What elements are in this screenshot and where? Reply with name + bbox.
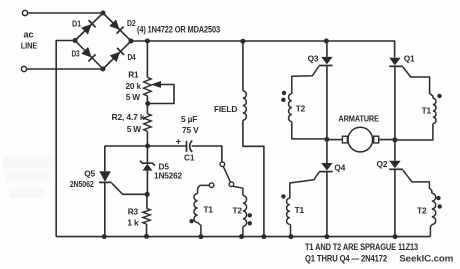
SCR Q3: [321, 57, 332, 65]
svg-text:FIELD: FIELD: [214, 104, 237, 114]
T1 secondary lower dot: [281, 194, 285, 198]
resistor R2: [144, 114, 152, 132]
wire T1 primary bottom: [198, 223, 201, 237]
svg-text:5 W: 5 W: [126, 92, 141, 102]
node R2 bottom junction: [145, 144, 150, 149]
node Q2 rail: [393, 234, 398, 239]
wire ac top: [28, 12, 103, 14]
svg-text:LINE: LINE: [21, 41, 38, 51]
node bridge bottom: [101, 67, 106, 72]
wire T2 secondary lower bottom: [430, 225, 431, 237]
svg-text:Q2: Q2: [377, 159, 388, 169]
svg-text:R2, 4.7 k: R2, 4.7 k: [112, 112, 146, 122]
armature motor: [348, 127, 373, 152]
SCR Q5: [99, 171, 111, 182]
wire armature left: [327, 139, 343, 141]
wire D5 bottom: [146, 171, 148, 195]
wire Q5 cathode: [104, 182, 106, 236]
Q1 gate wire: [403, 67, 433, 98]
resistor R3: [143, 208, 151, 224]
wire R2 bottom: [146, 131, 148, 146]
capacitor C1: [186, 141, 188, 152]
T1 primary dot: [189, 219, 193, 223]
svg-text:T2: T2: [233, 206, 243, 216]
wire ac bottom: [27, 68, 103, 70]
svg-text:5 W: 5 W: [127, 124, 142, 134]
armature left brush: [342, 136, 347, 143]
wire bridge arm D3: [75, 41, 103, 70]
wire switch left contact to T1: [198, 185, 210, 193]
wire D5 top: [146, 146, 148, 163]
wire R1 bottom: [146, 96, 148, 104]
svg-text:R1: R1: [128, 70, 139, 80]
svg-text:5 µF: 5 µF: [181, 114, 197, 124]
wire Q2 cathode: [394, 169, 396, 236]
faint scan watermark: [3, 157, 55, 198]
wire Q4 cathode: [326, 172, 328, 237]
node bridge right: [129, 39, 134, 44]
svg-text:T1 AND T2 ARE SPRAGUE 11Z13: T1 AND T2 ARE SPRAGUE 11Z13: [305, 242, 418, 252]
wire R3 top: [146, 194, 148, 208]
svg-text:D5: D5: [159, 162, 170, 172]
switch pole: [220, 162, 225, 167]
switch contact left: [209, 183, 214, 188]
wire R1 top: [146, 41, 148, 77]
svg-text:Q1: Q1: [404, 53, 415, 63]
switch blade: [223, 166, 230, 182]
wire armature right: [379, 139, 396, 141]
Q5 gate wire: [112, 183, 147, 194]
svg-text:75 V: 75 V: [182, 125, 199, 135]
svg-text:Q3: Q3: [308, 53, 319, 63]
svg-text:Q5: Q5: [84, 169, 95, 179]
node R1 top junction: [145, 39, 150, 44]
wire Q3 cathode: [326, 66, 328, 164]
wire switch right contact to T2: [233, 186, 243, 195]
wire mid horizontal left of C1: [105, 145, 187, 147]
node bridge left: [73, 38, 78, 43]
svg-text:1 k: 1 k: [127, 218, 139, 228]
wire Q1 anode: [394, 41, 396, 58]
wire Q1 cathode: [394, 66, 396, 160]
node Q5 rail: [102, 234, 107, 239]
svg-text:SeekIC.com: SeekIC.com: [399, 253, 453, 264]
svg-text:Q1 THRU Q4 — 2N4172: Q1 THRU Q4 — 2N4172: [305, 253, 387, 263]
armature right brush: [374, 136, 379, 143]
svg-text:T1: T1: [204, 205, 214, 215]
T2 secondary lower dots: [436, 196, 440, 200]
svg-text:T1: T1: [295, 205, 305, 215]
T2 secondary winding: [288, 94, 291, 122]
svg-text:T2: T2: [417, 206, 427, 216]
svg-text:2N5062: 2N5062: [70, 179, 94, 189]
T1 secondary winding: [433, 98, 436, 123]
node field rail junction: [240, 39, 245, 44]
svg-text:T1: T1: [422, 106, 432, 116]
svg-text:1N5262: 1N5262: [154, 172, 183, 181]
node T1 primary rail: [198, 234, 203, 239]
switch contact right: [229, 182, 234, 187]
node Q3 rail junction: [324, 39, 329, 44]
T2 primary dots: [248, 213, 252, 217]
node R3 rail: [144, 234, 149, 239]
SCR Q2: [389, 161, 400, 169]
svg-text:D4: D4: [128, 52, 136, 62]
svg-text:D2: D2: [127, 18, 136, 28]
wire Q5 anode: [104, 146, 106, 171]
wire bridge arm D1: [75, 13, 103, 41]
svg-text:R3: R3: [128, 207, 139, 217]
resistor R1: [144, 77, 152, 95]
wire negative rail: [56, 236, 430, 238]
ac line terminal top: [22, 10, 27, 15]
wire T2 secondary bottom: [292, 122, 327, 139]
svg-text:T2: T2: [296, 104, 306, 114]
wire T1 secondary lower bottom: [290, 224, 292, 236]
node R1 bottom junction: [145, 101, 150, 106]
T2 primary winding: [243, 195, 247, 226]
wire bridge arm D4: [103, 41, 131, 69]
wire R2 top: [146, 104, 148, 114]
T2 secondary dots: [282, 91, 286, 95]
ac line terminal bottom: [21, 66, 26, 71]
wire left node to negative rail: [56, 41, 75, 237]
svg-text:D3: D3: [72, 49, 80, 59]
node Q4 rail: [324, 234, 329, 239]
svg-text:ARMATURE: ARMATURE: [338, 114, 379, 124]
wire Q3 anode: [326, 41, 328, 57]
Q4 gate wire: [290, 172, 319, 198]
SCR Q4: [321, 163, 332, 171]
Q3 gate wire: [292, 66, 319, 94]
svg-text:(4) 1N4722 OR MDA2503: (4) 1N4722 OR MDA2503: [137, 25, 220, 35]
svg-text:ac: ac: [24, 30, 34, 40]
field coil: [243, 91, 246, 120]
node T2 primary rail: [239, 234, 244, 239]
node armature left: [324, 137, 329, 142]
T1 primary winding: [194, 194, 198, 223]
T1 secondary lower winding: [287, 198, 290, 224]
T1 secondary dot: [437, 94, 441, 98]
node T1 secondary rail: [288, 234, 293, 239]
T2 secondary lower winding: [432, 193, 436, 224]
svg-text:C1: C1: [184, 153, 195, 163]
Q2 gate wire: [403, 170, 432, 193]
diode D3: [81, 47, 95, 61]
wire field bottom: [243, 120, 264, 236]
SCR Q1: [389, 58, 400, 65]
R1 wiper arrow: [151, 81, 161, 88]
svg-text:D1: D1: [72, 19, 81, 29]
wire T2 primary bottom: [242, 227, 244, 237]
svg-text:Q4: Q4: [334, 162, 345, 172]
node bridge top: [101, 11, 106, 16]
diode D1: [81, 20, 95, 34]
zener D5: [142, 164, 152, 171]
svg-text:+: +: [176, 137, 182, 148]
wire field top: [242, 41, 244, 91]
wire R3 bottom: [146, 224, 148, 237]
diode D2: [109, 19, 123, 33]
node armature right: [392, 137, 397, 142]
node D5 gate junction: [145, 192, 150, 197]
wire positive rail: [131, 40, 395, 43]
wire bridge arm D2: [103, 13, 131, 41]
svg-text:20 k: 20 k: [125, 81, 141, 91]
wire T1 secondary bottom: [395, 124, 433, 140]
diode D4: [110, 48, 124, 62]
wire mid horizontal right of C1: [192, 146, 222, 162]
node field rail bottom: [261, 234, 266, 239]
